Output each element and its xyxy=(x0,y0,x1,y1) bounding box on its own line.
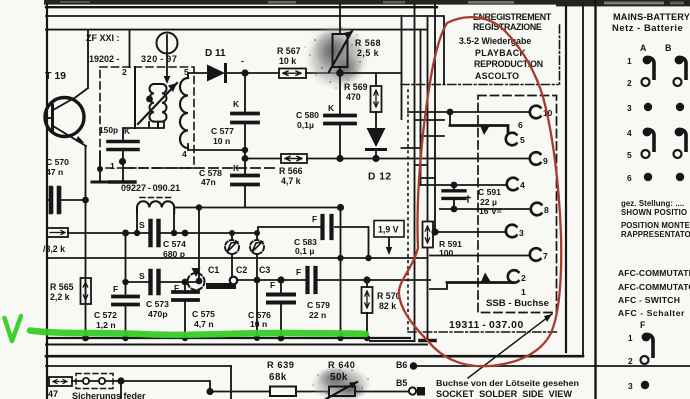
svg-text:D 11: D 11 xyxy=(205,48,226,59)
wire pin4 to column xyxy=(188,144,245,150)
svg-text:50k: 50k xyxy=(330,372,348,383)
pin 4 wire xyxy=(421,184,507,186)
diode D11 xyxy=(207,65,245,82)
ground bar x427 xyxy=(420,339,435,343)
pin 7 wire xyxy=(430,255,530,257)
svg-text:C 570: C 570 xyxy=(46,157,69,167)
svg-text:4: 4 xyxy=(627,128,632,138)
svg-text:5: 5 xyxy=(184,67,189,77)
trimmer C2 dashed circle xyxy=(250,233,264,280)
wire C2 node down to ground xyxy=(256,280,258,338)
svg-text:Sicherungs feder: Sicherungs feder xyxy=(72,391,146,399)
svg-text:AFC - Schalter: AFC - Schalter xyxy=(618,308,685,318)
svg-text:9: 9 xyxy=(543,156,548,166)
node dot primary top xyxy=(146,96,153,103)
svg-text:R 569: R 569 xyxy=(344,82,368,92)
svg-text:0,1 µ: 0,1 µ xyxy=(295,246,314,256)
svg-text:SHOWN POSITIO: SHOWN POSITIO xyxy=(621,208,687,217)
svg-text:K: K xyxy=(233,163,239,173)
svg-text:3: 3 xyxy=(627,103,632,113)
svg-text:R 570: R 570 xyxy=(377,291,401,301)
svg-text:2,2 k: 2,2 k xyxy=(50,292,70,302)
switch A rows 1-2 xyxy=(642,56,655,86)
svg-text:C 577: C 577 xyxy=(211,126,234,136)
svg-text:C 575: C 575 xyxy=(192,309,215,319)
svg-text:AFC - SWITCH: AFC - SWITCH xyxy=(618,295,680,305)
svg-text:T 19: T 19 xyxy=(45,70,66,82)
frame schematic bottom line y344 xyxy=(46,344,427,346)
svg-text:ENREGISTREMENT: ENREGISTREMENT xyxy=(473,12,552,22)
svg-text:4,7 n: 4,7 n xyxy=(194,319,214,329)
tuning indicator circled arrow xyxy=(157,33,178,85)
svg-text:16 V=: 16 V= xyxy=(479,206,502,216)
resistor R565 2.2k xyxy=(81,278,92,304)
rail D y280 with capacitor C579 22n in series xyxy=(237,279,305,281)
svg-text:R 566: R 566 xyxy=(279,166,303,176)
connector pin 2 xyxy=(508,270,519,283)
switch B rows 1-2 xyxy=(674,56,687,86)
svg-text:680 p: 680 p xyxy=(163,249,185,259)
SSB-Buchse dashed box xyxy=(478,96,557,313)
frame top line C xyxy=(46,29,427,31)
transformer primary winding with arrow xyxy=(135,67,177,128)
svg-text:C 572: C 572 xyxy=(94,310,117,320)
connector pin 3 xyxy=(506,225,517,238)
contact B row 6 xyxy=(676,173,684,181)
svg-text:K: K xyxy=(233,99,239,109)
resistor R591 100 xyxy=(423,222,434,248)
svg-text:C 579: C 579 xyxy=(307,300,330,310)
switch A rows 4-5 xyxy=(642,128,655,158)
potentiometer R640 50k xyxy=(326,382,408,399)
svg-text:19311 - 037.00: 19311 - 037.00 xyxy=(449,320,524,331)
smudge around R568 xyxy=(304,23,370,91)
IF transformer ZF XXI dashed box xyxy=(100,67,194,168)
contact B row 3 xyxy=(676,103,684,111)
svg-text:2: 2 xyxy=(627,78,632,88)
thick link bar node xyxy=(209,283,233,289)
svg-text:1,9 V: 1,9 V xyxy=(378,225,399,235)
capacitor C591 22u electrolytic xyxy=(443,185,470,209)
svg-text:SSB - Buchse: SSB - Buchse xyxy=(486,298,549,309)
connector pin 10 xyxy=(530,106,541,119)
svg-text:F: F xyxy=(312,214,317,224)
node pin1 xyxy=(119,158,126,165)
svg-text:4: 4 xyxy=(182,149,187,159)
resistor 8.2k left xyxy=(47,228,68,237)
svg-text:REPRODUCTION: REPRODUCTION xyxy=(474,59,543,69)
svg-text:R 565: R 565 xyxy=(50,282,74,292)
node B6 dot xyxy=(410,362,418,370)
svg-text:K: K xyxy=(124,126,130,136)
node R568 bottom xyxy=(336,69,344,77)
wire rail D left y282 with capacitor C573 470p in series xyxy=(126,281,149,283)
svg-text:C 580: C 580 xyxy=(296,110,319,120)
svg-text:AFC-COMMUTATO: AFC-COMMUTATO xyxy=(618,282,690,292)
svg-text:1: 1 xyxy=(627,56,632,66)
svg-text:R 568: R 568 xyxy=(355,38,381,48)
svg-text:C1: C1 xyxy=(208,265,219,275)
measurement box 1.9V xyxy=(374,221,404,256)
svg-text:1: 1 xyxy=(521,287,526,297)
connector pin 4 xyxy=(507,178,518,191)
AFC contact row 3 xyxy=(641,381,649,389)
node D12 bottom xyxy=(372,155,379,162)
switch contact pin 1 xyxy=(430,273,513,290)
svg-text:3: 3 xyxy=(628,381,633,391)
outer dash-dot box xyxy=(401,25,560,332)
wire fuse to junction xyxy=(121,381,210,392)
resistor R570 82k xyxy=(362,280,373,338)
svg-text:B5: B5 xyxy=(396,378,407,388)
pin 10 wire xyxy=(408,111,530,113)
svg-text:7: 7 xyxy=(543,251,548,261)
potentiometer R568 2.5k xyxy=(329,5,352,73)
node B5 open circle xyxy=(409,387,416,394)
wire top bus to R567 xyxy=(245,72,279,74)
AFC switch F rows 1-2 xyxy=(641,333,654,364)
rail B y233 with capacitor C574 680p in series xyxy=(68,232,148,234)
svg-text:68k: 68k xyxy=(269,372,287,383)
frame top line A xyxy=(46,6,437,8)
svg-text:C3: C3 xyxy=(259,265,270,275)
wire primary bottom to 150p xyxy=(123,122,164,140)
svg-text:C 574: C 574 xyxy=(163,239,186,249)
svg-text:2: 2 xyxy=(521,273,526,283)
dashed line bottom extension xyxy=(125,167,277,169)
frame top line B with corner at x444 xyxy=(46,16,444,33)
svg-text:POSITION MONTE: POSITION MONTE xyxy=(621,221,690,230)
inductor coil with dashed core xyxy=(137,198,174,234)
contact A row 6 xyxy=(644,173,652,181)
wire x121 down xyxy=(120,381,122,399)
frame vertical x595 full height xyxy=(594,0,596,399)
node C580 bottom xyxy=(336,155,343,162)
svg-text:R 640: R 640 xyxy=(328,360,356,370)
node D11 output xyxy=(241,69,248,76)
vertical bus x420 xyxy=(420,30,422,185)
wire y341 lower left of connector xyxy=(370,340,415,342)
svg-text:5: 5 xyxy=(627,150,632,160)
transformer secondary winding xyxy=(180,78,188,148)
svg-text:2,5 k: 2,5 k xyxy=(357,48,379,58)
pin 8 wire xyxy=(440,208,531,210)
open circle node xyxy=(230,277,238,285)
trimmer C3 dashed circle xyxy=(188,268,205,290)
svg-text:4,7 k: 4,7 k xyxy=(281,176,301,186)
frame left border xyxy=(46,4,48,399)
wire emitter column x85.5 xyxy=(85,146,87,338)
rail A y207.5 xyxy=(174,207,341,209)
svg-text:REGISTRAZIONE: REGISTRAZIONE xyxy=(473,22,542,32)
ground bus y334 xyxy=(47,337,410,339)
svg-text:6: 6 xyxy=(518,120,523,130)
transistor T19 xyxy=(45,30,88,146)
svg-text:320 - 97: 320 - 97 xyxy=(141,54,177,64)
wire pin2 up xyxy=(129,30,131,67)
svg-text:150p: 150p xyxy=(99,125,118,135)
svg-text:10 k: 10 k xyxy=(279,56,296,66)
svg-text:8: 8 xyxy=(544,205,549,215)
svg-text:470p: 470p xyxy=(148,309,168,319)
vertical x231 bottom xyxy=(230,366,232,399)
svg-text:1: 1 xyxy=(110,161,115,171)
svg-text:5: 5 xyxy=(520,135,525,145)
svg-text:C 591: C 591 xyxy=(478,187,501,197)
svg-text:C2: C2 xyxy=(236,265,247,275)
frame bottom thick line y356 xyxy=(46,355,583,358)
svg-text:F: F xyxy=(640,320,646,330)
switch contact 6/5 xyxy=(450,112,508,135)
wire pin5 top bus y73 xyxy=(188,73,207,78)
frame vertical x583 xyxy=(582,5,584,355)
svg-text:0,1µ: 0,1µ xyxy=(297,120,314,130)
svg-text:/8,2 k: /8,2 k xyxy=(43,244,65,254)
svg-text:-: - xyxy=(241,56,244,66)
svg-text:09227 - 090.21: 09227 - 090.21 xyxy=(121,183,180,193)
node R565 bottom on ground bus xyxy=(82,335,89,342)
capacitor C577 10n xyxy=(232,114,258,123)
pointer arrow to SSB box xyxy=(468,314,552,378)
wire B6 right xyxy=(417,365,690,367)
svg-text:S: S xyxy=(139,220,145,230)
vertical bus x408 solid xyxy=(443,33,445,84)
svg-text:470: 470 xyxy=(346,92,361,102)
frame right sheet edge x566 xyxy=(565,5,567,352)
capacitor C576 10n column xyxy=(268,280,294,338)
svg-text:Buchse von der Lötseite gesehe: Buchse von der Lötseite gesehen xyxy=(436,378,579,388)
solder pad square xyxy=(417,387,425,396)
capacitor C578 47n xyxy=(232,176,258,185)
wire top bus to x401 xyxy=(340,72,402,74)
svg-text:2: 2 xyxy=(122,67,127,77)
wire x340 column to ground xyxy=(340,208,342,339)
svg-text:82 k: 82 k xyxy=(379,301,396,311)
svg-text:3: 3 xyxy=(519,228,524,238)
trimmer C1 dashed circle xyxy=(225,233,239,277)
connector pin 5 xyxy=(506,133,517,146)
connector pin 9 xyxy=(530,152,541,165)
vertical bus x414 xyxy=(370,5,415,341)
pin 3 wire xyxy=(435,231,507,233)
green marker line xyxy=(30,331,366,335)
svg-text:A: A xyxy=(640,43,647,53)
svg-text:ZF XXI :: ZF XXI : xyxy=(86,33,120,43)
svg-text:19202 -: 19202 - xyxy=(89,54,120,64)
capacitor C580 0.1u xyxy=(325,73,355,159)
wire column x245 xyxy=(244,73,246,208)
svg-text:100: 100 xyxy=(439,248,454,258)
resistor R566 4.7k xyxy=(245,154,530,163)
wire bus x401 down xyxy=(401,16,403,119)
resistor 47 fuse row xyxy=(49,377,72,386)
svg-text:3.5-2 Wiedergabe: 3.5-2 Wiedergabe xyxy=(459,36,531,46)
resistor R569 470 xyxy=(371,73,382,128)
svg-text:F: F xyxy=(296,267,301,277)
svg-text:D 12: D 12 xyxy=(368,172,392,183)
smudge around R640 xyxy=(310,365,372,399)
svg-text:F: F xyxy=(174,283,179,293)
fuse spring dashed box xyxy=(72,374,121,389)
capacitor C583 0.1u xyxy=(323,216,332,238)
node dots rail B xyxy=(122,230,129,237)
svg-text:B6: B6 xyxy=(396,360,407,370)
node junction at emitter/C570 xyxy=(82,197,89,204)
svg-text:AFC-COMMUTATI: AFC-COMMUTATI xyxy=(618,268,690,278)
wire x199 column xyxy=(198,208,200,282)
capacitor C572 1.2n column xyxy=(113,233,138,338)
svg-text:S: S xyxy=(139,271,145,281)
vertical bus x427 xyxy=(427,16,429,339)
capacitor C570 47n xyxy=(47,188,86,212)
ground at pin1 xyxy=(110,180,135,183)
top dark scan band xyxy=(44,0,690,6)
svg-text:C 573: C 573 xyxy=(146,299,169,309)
connector pin 8 xyxy=(531,203,542,216)
svg-text:1,2 n: 1,2 n xyxy=(96,320,116,330)
svg-text:Netz - Batterie: Netz - Batterie xyxy=(612,22,683,33)
svg-text:MAINS-BATTERY: MAINS-BATTERY xyxy=(613,12,690,22)
svg-text:SOCKET SOLDER SIDE VIEW: SOCKET SOLDER SIDE VIEW xyxy=(436,389,573,399)
capacitor 150p K xyxy=(108,142,138,150)
rail C y258 xyxy=(47,257,428,259)
diode D12 xyxy=(367,128,386,159)
green letter V xyxy=(5,316,22,341)
resistor R567 10k xyxy=(279,69,340,79)
svg-text:4: 4 xyxy=(520,180,525,190)
svg-text:ASCOLTO: ASCOLTO xyxy=(475,71,519,81)
wire bottom bus y391 xyxy=(210,391,270,393)
svg-text:10 n: 10 n xyxy=(250,319,267,329)
short connect wires xyxy=(402,120,445,178)
svg-text:R 639: R 639 xyxy=(267,360,295,370)
svg-text:47 n: 47 n xyxy=(46,167,63,177)
svg-text:F: F xyxy=(113,284,118,294)
wire C583 row y227 xyxy=(258,227,369,258)
svg-text:RAPPRESENTATO: RAPPRESENTATO xyxy=(621,230,690,239)
ground small left xyxy=(92,152,108,182)
capacitor C575 4.7n column xyxy=(173,282,198,338)
svg-text:6: 6 xyxy=(627,173,632,183)
svg-text:B: B xyxy=(665,43,671,53)
vertical bus x435 xyxy=(434,5,436,232)
svg-text:2: 2 xyxy=(628,356,633,366)
switch B rows 4-5 xyxy=(674,128,687,158)
svg-text:10 n: 10 n xyxy=(213,136,230,146)
wire bottom bus y366 left xyxy=(46,365,231,367)
svg-text:F: F xyxy=(270,280,275,290)
svg-text:R 567: R 567 xyxy=(277,46,301,56)
red hand-drawn circle annotation xyxy=(399,17,561,366)
svg-text:gez. Stellung: ....: gez. Stellung: .... xyxy=(621,199,684,208)
contact A row 3 xyxy=(644,103,652,111)
svg-text:47n: 47n xyxy=(201,177,216,187)
connector pin 7 xyxy=(530,248,541,261)
svg-text:47: 47 xyxy=(48,389,58,399)
svg-text:22 n: 22 n xyxy=(309,310,326,320)
resistor R639 68k xyxy=(270,387,296,397)
svg-text:K: K xyxy=(328,103,334,113)
svg-text:1: 1 xyxy=(628,334,633,343)
